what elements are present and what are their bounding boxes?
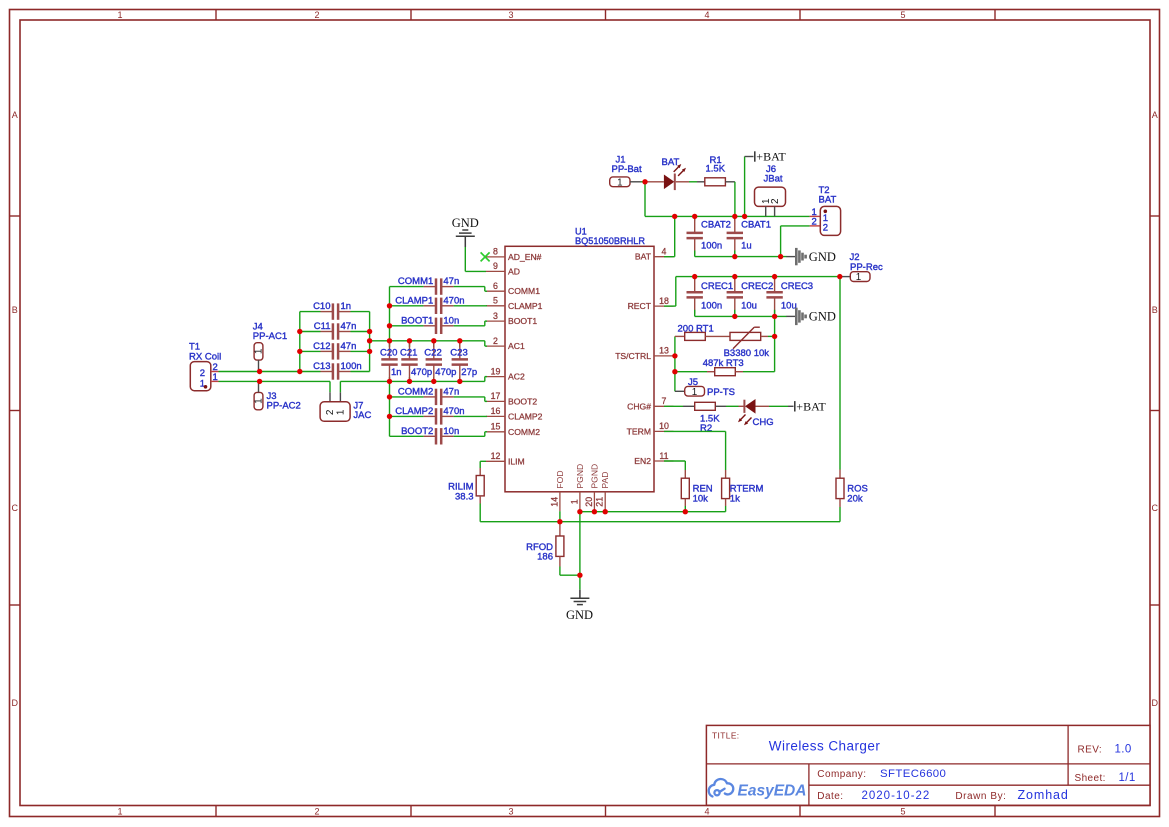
svg-text:CHG#: CHG# (627, 401, 651, 411)
svg-text:1/1: 1/1 (1119, 772, 1136, 784)
svg-text:4: 4 (704, 807, 709, 817)
svg-text:B: B (1152, 305, 1158, 315)
svg-text:CREC1: CREC1 (701, 281, 733, 292)
svg-text:COMM2: COMM2 (398, 386, 433, 397)
svg-text:Date:: Date: (817, 791, 843, 802)
svg-text:CHG: CHG (753, 417, 774, 428)
svg-text:COMM1: COMM1 (508, 286, 540, 296)
svg-text:8: 8 (493, 247, 498, 257)
svg-text:GND: GND (809, 310, 836, 324)
svg-text:TS/CTRL: TS/CTRL (615, 351, 651, 361)
svg-text:487k RT3: 487k RT3 (703, 358, 744, 369)
svg-text:47n: 47n (443, 276, 459, 287)
svg-text:RX Coil: RX Coil (189, 351, 221, 362)
svg-text:GND: GND (566, 608, 593, 622)
svg-text:PGND: PGND (575, 464, 585, 489)
svg-text:CLAMP1: CLAMP1 (508, 301, 543, 311)
svg-text:20k: 20k (847, 494, 863, 505)
svg-text:16: 16 (491, 406, 501, 416)
svg-text:4: 4 (704, 10, 709, 20)
svg-text:C20: C20 (380, 348, 397, 359)
svg-text:1: 1 (117, 807, 122, 817)
svg-text:JBat: JBat (764, 173, 783, 184)
svg-text:SFTEC6600: SFTEC6600 (880, 768, 946, 780)
svg-text:2: 2 (325, 409, 336, 415)
svg-text:2020-10-22: 2020-10-22 (862, 790, 931, 802)
svg-text:5: 5 (900, 10, 905, 20)
svg-text:BOOT2: BOOT2 (508, 396, 537, 406)
svg-text:1.0: 1.0 (1115, 743, 1132, 755)
svg-text:5: 5 (900, 807, 905, 817)
svg-text:BAT: BAT (635, 252, 652, 262)
svg-text:15: 15 (491, 422, 501, 432)
svg-text:AD: AD (508, 266, 520, 276)
svg-text:14: 14 (549, 497, 559, 507)
svg-text:47n: 47n (341, 341, 357, 352)
svg-text:1k: 1k (730, 494, 740, 505)
svg-text:100n: 100n (701, 300, 722, 311)
svg-text:7: 7 (662, 396, 667, 406)
svg-text:470p: 470p (435, 367, 456, 378)
svg-text:C21: C21 (400, 348, 417, 359)
svg-text:1u: 1u (741, 241, 752, 252)
svg-text:BOOT2: BOOT2 (401, 426, 433, 437)
svg-text:CREC3: CREC3 (781, 281, 813, 292)
svg-text:47n: 47n (443, 386, 459, 397)
svg-text:Company:: Company: (817, 769, 866, 780)
svg-text:GND: GND (452, 216, 479, 230)
svg-text:10u: 10u (741, 300, 757, 311)
svg-text:1: 1 (117, 10, 122, 20)
svg-text:J5: J5 (688, 377, 698, 388)
svg-text:REV:: REV: (1078, 744, 1103, 755)
svg-text:EN2: EN2 (634, 456, 651, 466)
svg-text:AC1: AC1 (508, 341, 525, 351)
svg-text:1: 1 (856, 272, 861, 283)
svg-text:27p: 27p (461, 367, 477, 378)
svg-text:10k: 10k (693, 494, 709, 505)
svg-text:1: 1 (213, 372, 218, 383)
svg-text:47n: 47n (341, 321, 357, 332)
svg-text:PGND: PGND (589, 464, 599, 489)
svg-text:C13: C13 (313, 361, 330, 372)
svg-text:20: 20 (584, 497, 594, 507)
svg-text:2: 2 (812, 216, 817, 227)
svg-text:Drawn By:: Drawn By: (955, 791, 1006, 802)
svg-text:C10: C10 (313, 301, 330, 312)
svg-text:470n: 470n (443, 406, 464, 417)
svg-text:21: 21 (595, 497, 605, 507)
svg-text:C: C (1151, 503, 1158, 513)
svg-text:TITLE:: TITLE: (712, 731, 740, 741)
svg-text:10u: 10u (781, 300, 797, 311)
svg-text:11: 11 (659, 451, 668, 461)
svg-text:D: D (11, 698, 18, 708)
svg-text:C12: C12 (313, 341, 330, 352)
svg-text:TERM: TERM (627, 426, 651, 436)
svg-text:RECT: RECT (628, 301, 652, 311)
svg-text:AC2: AC2 (508, 372, 525, 382)
svg-text:1: 1 (569, 499, 579, 504)
svg-text:4: 4 (662, 247, 667, 257)
svg-text:17: 17 (491, 391, 501, 401)
svg-text:+BAT: +BAT (756, 150, 786, 164)
svg-text:1n: 1n (391, 367, 402, 378)
svg-text:BAT: BAT (662, 157, 680, 168)
svg-text:13: 13 (659, 346, 669, 356)
svg-text:1: 1 (254, 348, 265, 354)
svg-text:PP-AC1: PP-AC1 (253, 331, 287, 342)
svg-text:PP-TS: PP-TS (707, 387, 735, 398)
svg-text:CREC2: CREC2 (741, 281, 773, 292)
svg-text:BQ51050BRHLR: BQ51050BRHLR (575, 236, 645, 246)
svg-text:2: 2 (314, 807, 319, 817)
svg-text:D: D (1151, 698, 1158, 708)
svg-text:2: 2 (823, 222, 828, 233)
svg-text:C22: C22 (424, 348, 441, 359)
svg-text:19: 19 (491, 366, 501, 376)
svg-text:+BAT: +BAT (796, 400, 826, 414)
svg-text:2: 2 (770, 198, 781, 204)
svg-text:CLAMP1: CLAMP1 (395, 295, 433, 306)
svg-text:100n: 100n (701, 241, 722, 252)
svg-text:A: A (12, 110, 18, 120)
svg-text:6: 6 (493, 281, 498, 291)
svg-text:PP-Rec: PP-Rec (850, 262, 883, 273)
svg-text:A: A (1152, 110, 1158, 120)
svg-text:1: 1 (254, 398, 265, 404)
svg-text:200 RT1: 200 RT1 (678, 324, 714, 335)
svg-text:FOD: FOD (555, 470, 565, 488)
svg-text:38.3: 38.3 (455, 492, 474, 503)
svg-text:BOOT1: BOOT1 (508, 316, 537, 326)
svg-text:COMM1: COMM1 (398, 276, 433, 287)
svg-text:2: 2 (314, 10, 319, 20)
svg-text:CBAT2: CBAT2 (701, 220, 731, 231)
svg-text:3: 3 (493, 311, 498, 321)
svg-text:100n: 100n (341, 361, 362, 372)
svg-text:1: 1 (617, 177, 622, 188)
svg-text:18: 18 (659, 296, 669, 306)
svg-text:12: 12 (491, 451, 501, 461)
svg-text:3: 3 (508, 807, 513, 817)
svg-text:2: 2 (200, 368, 205, 379)
svg-text:C: C (11, 503, 18, 513)
svg-text:10: 10 (659, 421, 669, 431)
svg-text:470n: 470n (443, 295, 464, 306)
svg-text:U1: U1 (575, 227, 587, 237)
svg-text:ILIM: ILIM (508, 456, 525, 466)
svg-text:CLAMP2: CLAMP2 (508, 411, 543, 421)
svg-text:PP-Bat: PP-Bat (612, 164, 642, 175)
svg-text:Sheet:: Sheet: (1075, 773, 1106, 784)
svg-text:CLAMP2: CLAMP2 (395, 406, 433, 417)
svg-text:1.5K: 1.5K (706, 163, 726, 174)
svg-text:PP-AC2: PP-AC2 (267, 400, 301, 411)
svg-text:1n: 1n (341, 301, 352, 312)
svg-text:BOOT1: BOOT1 (401, 315, 433, 326)
svg-text:PAD: PAD (600, 472, 610, 489)
svg-text:1: 1 (336, 409, 347, 415)
svg-text:C11: C11 (314, 321, 331, 332)
svg-text:Wireless Charger: Wireless Charger (769, 739, 881, 754)
svg-text:3: 3 (508, 10, 513, 20)
svg-text:1: 1 (692, 387, 697, 398)
svg-text:10n: 10n (443, 426, 459, 437)
svg-text:5: 5 (493, 296, 498, 306)
svg-text:R2: R2 (700, 423, 712, 434)
svg-text:10n: 10n (443, 315, 459, 326)
svg-text:JAC: JAC (353, 410, 371, 421)
svg-text:2: 2 (493, 336, 498, 346)
svg-text:AD_EN#: AD_EN# (508, 252, 542, 262)
svg-text:470p: 470p (411, 367, 432, 378)
svg-text:Zomhad: Zomhad (1018, 788, 1069, 802)
svg-text:CBAT1: CBAT1 (741, 220, 771, 231)
svg-text:B: B (12, 305, 18, 315)
svg-text:GND: GND (809, 250, 836, 264)
svg-text:9: 9 (493, 261, 498, 271)
svg-text:186: 186 (537, 551, 553, 562)
svg-text:C23: C23 (450, 348, 467, 359)
svg-text:EasyEDA: EasyEDA (738, 783, 807, 800)
svg-text:COMM2: COMM2 (508, 427, 540, 437)
svg-text:BAT: BAT (819, 195, 837, 206)
